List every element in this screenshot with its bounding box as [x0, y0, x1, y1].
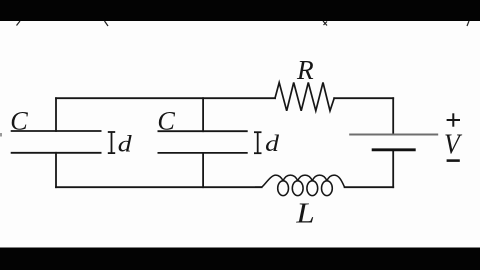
- wire: right vertical from battery - plate to bottom wire: [392, 151, 394, 187]
- wire: bottom horizontal, right section from coil to right vertical: [345, 186, 394, 188]
- resistor R1 zigzag: [275, 83, 334, 111]
- svg-text:d: d: [265, 130, 279, 157]
- text tip marks under top bar: [17, 21, 470, 26]
- edge artifact: [0, 133, 2, 137]
- wire: right vertical from top wire to battery + plate: [392, 98, 394, 134]
- bottom letterbox bar: [0, 248, 480, 270]
- capacitor C2 (middle): bottom plate: [158, 152, 248, 154]
- plus sign for battery: [447, 113, 460, 126]
- wire: middle vertical, C2 bottom plate to bottom wire: [202, 153, 204, 187]
- svg-text:R: R: [296, 55, 314, 85]
- svg-text:C: C: [10, 106, 28, 135]
- svg-text:d: d: [118, 130, 132, 157]
- wire: left vertical, C1 bottom plate to bottom wire: [55, 153, 57, 187]
- gap gauge I-beam for C1: [108, 132, 115, 153]
- capacitor C1 (left): bottom plate: [11, 152, 102, 154]
- top letterbox bar: [0, 0, 480, 21]
- svg-text:C: C: [157, 106, 175, 135]
- capacitor C1 (left): top plate: [11, 130, 102, 132]
- minus sign for battery: [447, 159, 460, 162]
- svg-text:L: L: [295, 196, 314, 229]
- wire: bottom horizontal, left section: [56, 186, 262, 188]
- gap gauge I-beam for C2: [254, 132, 262, 153]
- wire: left vertical, top wire to capacitor C1 top plate: [55, 98, 57, 131]
- wire: top horizontal, left section (node junction at x=203): [56, 97, 275, 99]
- wire: top horizontal, right section to battery: [334, 97, 393, 99]
- wire: middle vertical, top wire to capacitor C2 top plate: [202, 98, 204, 131]
- inductor L1 coil: [255, 175, 345, 196]
- battery V1: - plate (short thick): [372, 148, 416, 151]
- capacitor C2 (middle): top plate: [158, 130, 248, 132]
- battery V1: + plate (long grey): [349, 134, 438, 136]
